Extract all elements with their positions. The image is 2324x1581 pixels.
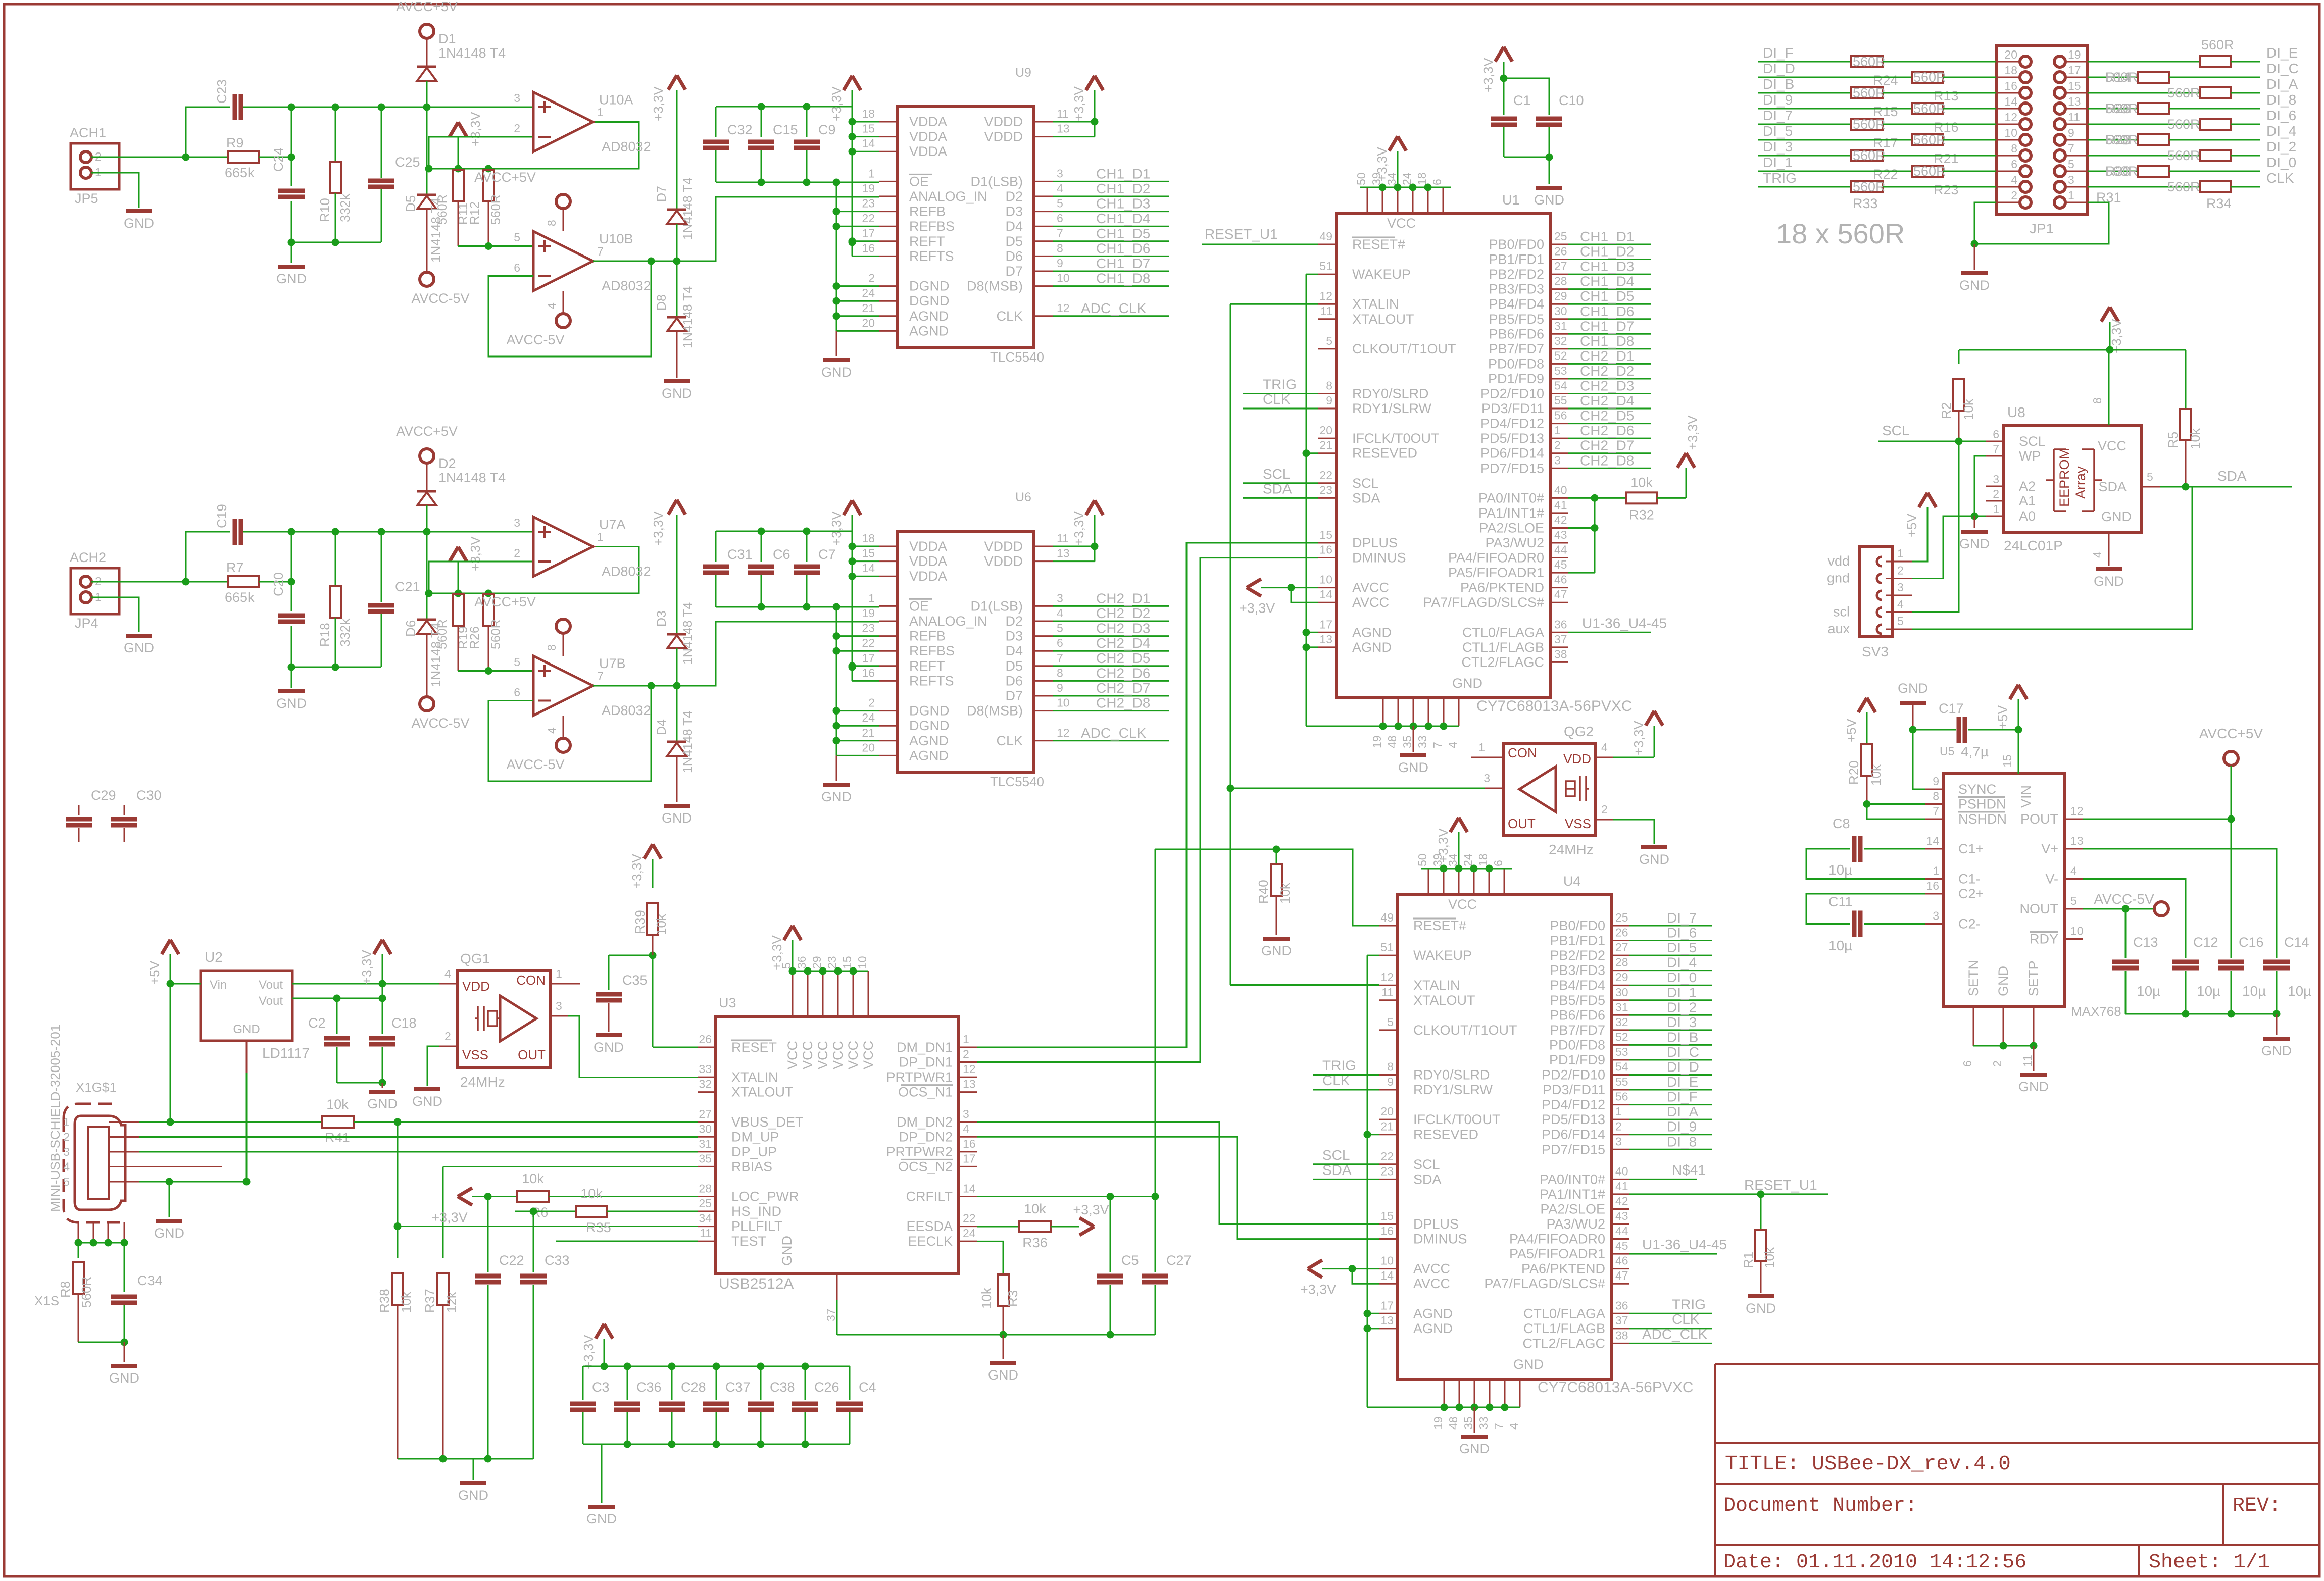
svg-text:16: 16: [862, 666, 875, 679]
svg-text:DI_2: DI_2: [1667, 999, 1697, 1015]
svg-text:Date: 01.11.2010 14:12:56: Date: 01.11.2010 14:12:56: [1723, 1551, 2026, 1574]
svg-text:GND: GND: [594, 1040, 624, 1055]
pin 7 JP1: [2065, 155, 2088, 157]
svg-text:19: 19: [1370, 735, 1383, 748]
svg-text:8: 8: [1057, 241, 1063, 254]
svg-text:RESET#: RESET#: [1413, 918, 1466, 933]
svg-text:35: 35: [1462, 1416, 1475, 1430]
svg-text:CH2_D2: CH2_D2: [1096, 605, 1150, 621]
svg-text:10µ: 10µ: [1828, 862, 1852, 878]
svg-text:560R: 560R: [2167, 85, 2200, 100]
resistor R15 560R: [1851, 87, 1883, 98]
svg-text:47: 47: [1615, 1269, 1628, 1282]
svg-text:PB1/FD1: PB1/FD1: [1489, 252, 1544, 267]
svg-text:DPLUS: DPLUS: [1352, 535, 1398, 550]
svg-text:DI_9: DI_9: [1763, 92, 1793, 108]
supply AVCC+5V pad op-amp pin8: [563, 633, 564, 656]
svg-text:AGND: AGND: [1352, 625, 1392, 640]
svg-text:PB1/FD1: PB1/FD1: [1550, 933, 1605, 948]
svg-text:PB5/FD5: PB5/FD5: [1550, 993, 1605, 1008]
pin 8 JP1: [1996, 155, 2020, 157]
svg-text:15: 15: [862, 547, 875, 560]
wire +3,3V rail: [2101, 307, 2118, 322]
pin 1 PD5/FD13: [1611, 1119, 1629, 1120]
pin 11 VDDD: [1034, 121, 1053, 123]
svg-text:7: 7: [1492, 1423, 1505, 1430]
resistor R11 560R: [458, 169, 459, 170]
wire RBIAS to R37: [443, 1166, 698, 1167]
svg-text:PA1/INT1#: PA1/INT1#: [1478, 505, 1544, 521]
node input: [182, 578, 190, 586]
wire caps to GND: [337, 1082, 382, 1084]
svg-text:6: 6: [1057, 212, 1063, 225]
svg-text:40: 40: [1615, 1164, 1628, 1178]
wire bypass top bus: [583, 1366, 850, 1367]
diode D2: [426, 463, 428, 491]
resistor R22 560R: [1851, 150, 1883, 161]
wire bottom GND bus: [1973, 1045, 2034, 1047]
svg-text:25: 25: [1554, 230, 1567, 243]
pin 2 X1: [109, 1136, 139, 1138]
pin 10 AVCC: [1318, 587, 1337, 588]
pin 39 VCC: [1382, 187, 1383, 214]
pin 34 VCC: [1458, 869, 1460, 895]
pin 38 CTL2/FLAGC: [1550, 661, 1568, 663]
svg-text:SCL: SCL: [1352, 476, 1379, 491]
svg-text:WAKEUP: WAKEUP: [1413, 948, 1472, 963]
wire VDDA bus: [716, 106, 852, 108]
pin 3 D1(LSB): [1034, 181, 1053, 182]
svg-text:DI_F: DI_F: [1667, 1089, 1698, 1105]
pin 2 A1: [1986, 500, 2004, 502]
wire R20 to PSHDN/NSHDN: [1867, 803, 1925, 805]
svg-text:DI_E: DI_E: [2266, 45, 2298, 61]
svg-text:+3,3V: +3,3V: [629, 854, 645, 889]
svg-text:56: 56: [1615, 1090, 1628, 1103]
svg-text:MINI-USB-SCHIELD-32005-201: MINI-USB-SCHIELD-32005-201: [47, 1025, 63, 1212]
wire node rail: [291, 531, 427, 533]
svg-text:VDDA: VDDA: [909, 144, 947, 159]
svg-text:D5: D5: [403, 195, 418, 212]
pin 41 PA1/INT1#: [1550, 512, 1568, 514]
USB connector X1G$1 MINI-USB-SCHIELD-32005-201: [64, 1104, 126, 1222]
svg-text:49: 49: [1380, 911, 1394, 924]
svg-text:DGND: DGND: [909, 718, 950, 733]
svg-text:3: 3: [2068, 173, 2074, 186]
svg-text:6: 6: [1430, 179, 1444, 185]
svg-text:20: 20: [2004, 48, 2017, 61]
svg-text:1: 1: [1554, 424, 1561, 437]
pin 11 SETP: [2033, 1006, 2035, 1046]
net CLK: [1313, 1089, 1379, 1091]
svg-text:5: 5: [1057, 197, 1063, 210]
svg-text:DI_8: DI_8: [2266, 92, 2296, 108]
svg-text:32: 32: [1554, 334, 1567, 347]
svg-text:CH1_D4: CH1_D4: [1096, 211, 1150, 226]
pin 9 SYNC: [1925, 789, 1943, 790]
wire X1S shield stubs: [78, 1222, 79, 1243]
wire WP: [1974, 456, 1986, 516]
svg-text:GND: GND: [154, 1226, 184, 1241]
pin 15 DPLUS: [1379, 1223, 1398, 1225]
capacitor C17 4,7u: [1913, 729, 1956, 731]
svg-text:9: 9: [2068, 126, 2074, 139]
svg-text:DGND: DGND: [909, 703, 950, 719]
ground: [169, 1182, 170, 1217]
ground: [111, 1364, 137, 1368]
svg-text:14: 14: [1926, 834, 1939, 847]
svg-text:D2: D2: [438, 456, 456, 471]
svg-text:A2: A2: [2019, 479, 2036, 494]
wire pin4 stub: [139, 1166, 222, 1167]
svg-text:VDDD: VDDD: [984, 129, 1023, 144]
wire OUT to XTAL net: [1230, 788, 1485, 789]
resistor R8 560R: [78, 1243, 79, 1258]
resistor R20 10k: [1858, 698, 1875, 712]
pin 4 GND: [1519, 1379, 1521, 1407]
svg-text:8: 8: [1326, 379, 1332, 392]
svg-text:GND: GND: [662, 810, 692, 826]
pin 6 D4: [1034, 226, 1053, 227]
svg-text:20: 20: [862, 741, 875, 754]
svg-text:55: 55: [1615, 1075, 1628, 1088]
svg-text:GND: GND: [1898, 681, 1928, 696]
pin 50 VCC: [1367, 187, 1368, 214]
svg-text:GND: GND: [233, 1023, 260, 1036]
svg-text:4: 4: [1057, 182, 1063, 195]
svg-text:C37: C37: [725, 1380, 751, 1395]
svg-text:17: 17: [862, 651, 875, 665]
pin 22 SCL: [1318, 482, 1337, 484]
svg-text:54: 54: [1554, 379, 1567, 392]
net TRIG: [1243, 393, 1318, 394]
svg-text:17: 17: [2068, 64, 2081, 77]
svg-text:14: 14: [963, 1182, 976, 1195]
svg-text:+3,3V: +3,3V: [581, 1335, 596, 1369]
svg-text:AGND: AGND: [1413, 1321, 1453, 1336]
svg-text:10: 10: [1057, 696, 1070, 709]
svg-text:PD0/FD8: PD0/FD8: [1549, 1037, 1605, 1052]
op-amp U7B: [458, 670, 533, 672]
svg-text:NSHDN: NSHDN: [1958, 811, 2007, 827]
ground: [1413, 726, 1414, 752]
svg-text:+5V: +5V: [1844, 718, 1859, 742]
svg-text:12: 12: [1057, 301, 1070, 315]
svg-text:SCL: SCL: [1413, 1157, 1440, 1172]
pin 18 VCC: [1489, 869, 1490, 895]
wire VDDA bus: [716, 531, 852, 532]
svg-text:QG1: QG1: [460, 951, 490, 966]
svg-text:R37: R37: [422, 1289, 437, 1313]
svg-text:C7: C7: [818, 547, 836, 562]
svg-text:19: 19: [862, 606, 875, 620]
svg-text:23: 23: [825, 956, 838, 969]
svg-text:1N4148 T4: 1N4148 T4: [681, 286, 695, 348]
svg-text:GND: GND: [1398, 760, 1428, 775]
supply +3,3V arrow AVCC: [1308, 1260, 1322, 1278]
svg-text:2: 2: [444, 1030, 451, 1043]
pin 44 PA4/FIFOADR0: [1550, 557, 1568, 558]
svg-text:C5: C5: [1121, 1253, 1139, 1268]
svg-text:PA5/FIFOADR1: PA5/FIFOADR1: [1448, 565, 1544, 580]
svg-text:560R: 560R: [435, 619, 450, 649]
svg-text:R3: R3: [1005, 1290, 1020, 1307]
svg-text:CH1_D3: CH1_D3: [1096, 196, 1150, 212]
svg-text:SETN: SETN: [1966, 960, 1981, 996]
pin 53 PD1/FD9: [1611, 1059, 1629, 1060]
svg-text:X1S: X1S: [34, 1293, 59, 1308]
pin 7 WP: [1986, 455, 2004, 457]
pin 17 AGND: [1318, 632, 1337, 633]
capacitor C26: [805, 1366, 806, 1400]
svg-text:D7: D7: [1005, 264, 1023, 279]
svg-text:CY7C68013A-56PVXC: CY7C68013A-56PVXC: [1538, 1379, 1694, 1396]
svg-text:DI_C: DI_C: [2266, 61, 2299, 76]
svg-text:37: 37: [824, 1308, 837, 1321]
svg-text:8: 8: [2091, 397, 2104, 404]
capacitor C19: [233, 519, 237, 545]
svg-text:Vin: Vin: [210, 978, 227, 992]
svg-text:GND: GND: [2094, 574, 2124, 589]
svg-text:DI_7: DI_7: [1763, 108, 1793, 123]
svg-text:1: 1: [1933, 864, 1939, 878]
supply +3,3V arrow: [450, 547, 467, 562]
wire DP_DN1 U3 to U1 DMINUS: [977, 558, 1318, 1062]
svg-text:2: 2: [514, 122, 520, 135]
ground: [1961, 271, 1988, 275]
pin 55 PD3/FD11: [1611, 1089, 1629, 1091]
svg-text:18: 18: [1415, 172, 1428, 185]
svg-text:REFT: REFT: [909, 658, 945, 674]
resistor R38 10k: [397, 1227, 399, 1258]
svg-text:10k: 10k: [399, 1291, 414, 1313]
wire VCC bus: [793, 971, 868, 972]
pin 30 PB5/FD5: [1611, 999, 1629, 1001]
svg-text:PD3/FD11: PD3/FD11: [1481, 401, 1544, 416]
svg-text:4: 4: [545, 302, 558, 309]
svg-text:37: 37: [1615, 1314, 1628, 1327]
svg-text:560R: 560R: [79, 1277, 94, 1308]
svg-text:SDA: SDA: [1322, 1162, 1352, 1178]
capacitor C35: [609, 955, 653, 956]
svg-text:30: 30: [699, 1122, 712, 1135]
pin 13 AGND: [1318, 646, 1337, 648]
connector SV3: [1860, 547, 1892, 637]
pin 4 GND: [2108, 532, 2110, 566]
svg-text:GND: GND: [662, 386, 692, 401]
ground: [126, 634, 152, 638]
svg-text:R38: R38: [377, 1289, 392, 1313]
svg-text:C29: C29: [91, 788, 116, 803]
wire DM_DN2 U3 to U4 DPLUS: [977, 1122, 1379, 1224]
svg-text:PA5/FIFOADR1: PA5/FIFOADR1: [1509, 1246, 1605, 1261]
pin 43 PA3/WU2: [1611, 1223, 1629, 1225]
svg-text:7: 7: [1993, 442, 1999, 455]
svg-text:8: 8: [545, 220, 558, 226]
resistor R24 560R: [1851, 56, 1883, 67]
svg-text:CLK: CLK: [1263, 391, 1291, 407]
ground: [473, 1459, 474, 1480]
op-amp U10B: [458, 245, 533, 247]
svg-text:2: 2: [1615, 1120, 1622, 1133]
svg-text:10k: 10k: [1961, 398, 1976, 420]
svg-text:GND: GND: [1452, 676, 1482, 691]
pin 21 AGND: [879, 740, 898, 741]
svg-text:AD8032: AD8032: [602, 139, 651, 155]
wire feedback U10A: [429, 122, 639, 169]
svg-text:5: 5: [1057, 622, 1063, 635]
svg-text:GND: GND: [1746, 1301, 1776, 1316]
svg-text:RDY1/SLRW: RDY1/SLRW: [1413, 1082, 1493, 1097]
svg-text:+3,3V: +3,3V: [1239, 601, 1275, 616]
pin 47 PA7/FLAGD/SLCS#: [1611, 1283, 1629, 1285]
svg-text:21: 21: [862, 726, 875, 739]
svg-text:Document Number:: Document Number:: [1723, 1495, 1917, 1517]
pin 2 VSS: [439, 1046, 458, 1047]
svg-text:PD1/FD9: PD1/FD9: [1488, 371, 1544, 386]
svg-text:7: 7: [597, 245, 604, 258]
pin 28 PB3/FD3: [1611, 970, 1629, 971]
pin 4 D2: [1034, 621, 1053, 622]
svg-text:R9: R9: [226, 135, 244, 150]
svg-text:6: 6: [1057, 636, 1063, 649]
pin 23 SDA: [1379, 1179, 1398, 1180]
svg-text:U1-36_U4-45: U1-36_U4-45: [1582, 615, 1667, 631]
svg-text:C32: C32: [727, 122, 753, 137]
svg-text:2: 2: [1993, 487, 1999, 500]
svg-text:36: 36: [1554, 618, 1567, 631]
pin 32 XTALOUT: [698, 1091, 716, 1093]
pin 9 D7: [1034, 695, 1053, 697]
pin 6 VCC: [1504, 869, 1505, 895]
svg-text:SCL: SCL: [2019, 434, 2046, 449]
svg-text:9: 9: [1057, 257, 1063, 270]
svg-text:TEST: TEST: [731, 1234, 766, 1249]
wire C19 to node rail: [243, 531, 291, 533]
svg-text:24MHz: 24MHz: [1549, 842, 1594, 857]
svg-text:TLC5540: TLC5540: [990, 349, 1044, 365]
pin 8 RDY0/SLRD: [1318, 393, 1337, 394]
svg-text:25: 25: [699, 1197, 712, 1210]
svg-text:C19: C19: [214, 504, 229, 528]
svg-text:11: 11: [1381, 986, 1394, 999]
connector ACH1: [71, 143, 119, 189]
svg-text:16: 16: [2004, 79, 2017, 92]
svg-text:7: 7: [2068, 142, 2074, 155]
svg-text:R8: R8: [58, 1281, 73, 1298]
svg-text:R20: R20: [1846, 760, 1861, 785]
pin 9 D7: [1034, 271, 1053, 272]
pin 13 VDDD: [1034, 560, 1053, 562]
svg-text:VCC: VCC: [800, 1041, 815, 1069]
svg-text:2: 2: [1991, 1060, 2004, 1067]
wire VCC bus: [1360, 187, 1451, 188]
wire REF/GND bus: [836, 607, 837, 755]
svg-text:RESEVED: RESEVED: [1352, 446, 1417, 461]
svg-text:CLK: CLK: [2266, 170, 2294, 186]
pin 52 PD0/FD8: [1611, 1044, 1629, 1046]
pin 14 VDDA: [879, 151, 898, 152]
svg-text:XTALIN: XTALIN: [1352, 296, 1399, 312]
ground: [1536, 186, 1562, 190]
svg-text:3: 3: [514, 91, 520, 105]
svg-text:6: 6: [1492, 860, 1505, 866]
svg-text:51: 51: [1319, 260, 1332, 273]
svg-text:SDA: SDA: [1413, 1171, 1442, 1187]
svg-text:VDDA: VDDA: [909, 129, 947, 144]
svg-text:PA1/INT1#: PA1/INT1#: [1540, 1187, 1605, 1202]
wire LOC_PWR: [472, 1196, 517, 1197]
ground: [2276, 1014, 2278, 1035]
svg-text:2: 2: [63, 1131, 70, 1144]
svg-text:CH2_D3: CH2_D3: [1580, 378, 1634, 394]
svg-text:R33: R33: [1853, 196, 1878, 211]
pin 8 RDY0/SLRD: [1379, 1074, 1398, 1076]
svg-text:SDA: SDA: [1352, 490, 1380, 505]
svg-text:3: 3: [63, 1145, 70, 1158]
svg-text:45: 45: [1554, 558, 1567, 571]
svg-text:TRIG: TRIG: [1672, 1296, 1706, 1312]
pin 22 REFBS: [879, 650, 898, 652]
svg-text:12: 12: [963, 1062, 976, 1076]
svg-text:2: 2: [868, 696, 875, 709]
svg-text:PB7/FD7: PB7/FD7: [1550, 1023, 1605, 1038]
svg-text:7: 7: [1057, 227, 1063, 240]
pin 36 CTL0/FLAGA: [1611, 1313, 1629, 1314]
supply +3,3V arrow bypass bank: [596, 1324, 613, 1339]
svg-text:R18: R18: [317, 623, 332, 647]
ground: [1003, 1335, 1004, 1359]
svg-text:1: 1: [1897, 547, 1904, 560]
pin 27 VBUS_DET: [698, 1121, 716, 1123]
net DI_A: [2088, 92, 2200, 94]
connector ACH2: [71, 568, 119, 614]
svg-text:D8(MSB): D8(MSB): [967, 703, 1023, 719]
svg-text:R28: R28: [2105, 132, 2131, 147]
svg-text:31: 31: [1615, 1000, 1628, 1013]
svg-text:10k: 10k: [979, 1287, 994, 1309]
supply AVCC-5V pad: [426, 209, 428, 272]
pin 6 D4: [1034, 650, 1053, 652]
svg-text:560R: 560R: [2167, 179, 2200, 194]
pin 17 AGND: [1379, 1313, 1398, 1314]
svg-text:VDDA: VDDA: [909, 554, 947, 569]
svg-text:10µ: 10µ: [1828, 938, 1852, 953]
svg-text:D6: D6: [1005, 673, 1023, 688]
svg-text:OUT: OUT: [518, 1047, 546, 1062]
svg-text:DMINUS: DMINUS: [1413, 1232, 1467, 1247]
pin 44 PA4/FIFOADR0: [1611, 1238, 1629, 1240]
pin 34 VCC: [1397, 187, 1399, 214]
svg-text:16: 16: [1319, 543, 1332, 556]
svg-text:10k: 10k: [326, 1097, 349, 1112]
svg-text:scl: scl: [1833, 604, 1850, 620]
wire Vout2: [292, 998, 382, 999]
diode D4: [676, 686, 678, 742]
svg-text:14: 14: [862, 137, 875, 150]
svg-text:C9: C9: [818, 122, 836, 137]
net ADC_CLK: [1053, 315, 1169, 317]
pin 39 VCC: [1443, 869, 1445, 895]
svg-text:DI_2: DI_2: [2266, 139, 2296, 155]
pin 21 AGND: [879, 315, 898, 317]
svg-text:AVCC: AVCC: [1413, 1276, 1450, 1291]
svg-text:13: 13: [1057, 122, 1070, 135]
svg-text:+3,3V: +3,3V: [468, 536, 483, 571]
svg-text:18 x 560R: 18 x 560R: [1776, 218, 1905, 249]
svg-text:8: 8: [2011, 142, 2017, 155]
supply +5V arrow: [162, 940, 179, 954]
